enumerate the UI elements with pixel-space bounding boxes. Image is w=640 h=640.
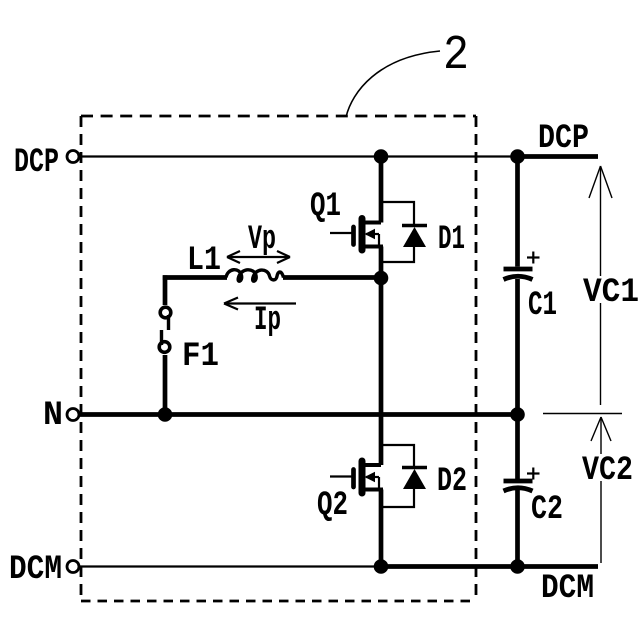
svg-text:D1: D1 (438, 220, 465, 259)
svg-text:DCP: DCP (538, 119, 589, 158)
svg-text:VC1: VC1 (583, 273, 639, 312)
svg-text:DCM: DCM (541, 569, 594, 608)
svg-text:DCP: DCP (14, 143, 59, 182)
svg-text:VC2: VC2 (582, 451, 633, 490)
svg-text:D2: D2 (437, 462, 467, 501)
svg-text:Vp: Vp (248, 220, 276, 259)
svg-text:DCM: DCM (9, 550, 62, 589)
svg-text:C2: C2 (531, 490, 563, 529)
svg-text:L1: L1 (187, 241, 221, 280)
svg-text:F1: F1 (182, 337, 219, 376)
svg-text:2: 2 (443, 29, 469, 83)
svg-text:C1: C1 (528, 286, 557, 325)
svg-text:N: N (43, 396, 63, 435)
svg-text:Q2: Q2 (317, 486, 348, 525)
svg-text:Ip: Ip (254, 301, 281, 340)
svg-text:Q1: Q1 (310, 187, 341, 226)
